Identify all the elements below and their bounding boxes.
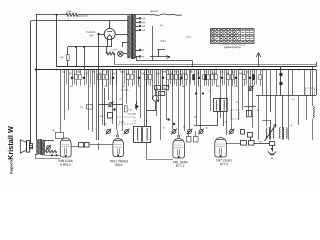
wire to selector xyxy=(78,14,150,16)
mid label j xyxy=(183,126,186,129)
junction mains xyxy=(56,14,58,16)
mid dots extra xyxy=(195,92,204,94)
label fuse xyxy=(66,10,71,13)
trimmer C20 xyxy=(108,102,114,108)
mid label n xyxy=(208,90,211,93)
trimmer C25 xyxy=(198,129,204,135)
wire coils up b xyxy=(282,95,284,127)
rectifier filament xyxy=(108,35,112,40)
electrolytic C right b xyxy=(279,76,282,95)
grid coupling box V1 xyxy=(52,129,64,139)
mid label b xyxy=(194,116,197,119)
svg-text:A D513: A D513 xyxy=(60,163,71,167)
resistor pair above V4 b xyxy=(194,131,199,142)
dashed box right edge xyxy=(306,88,315,96)
dial arrow head xyxy=(167,56,171,59)
component value labels row xyxy=(62,71,249,76)
trimmer V1 left xyxy=(46,145,51,150)
wire right coil link xyxy=(262,120,270,122)
table Anschluss grid xyxy=(211,28,255,44)
output transformer primary xyxy=(37,140,40,155)
label cap 011 xyxy=(186,36,191,39)
svg-text:2M: 2M xyxy=(104,123,107,126)
pot 50k box xyxy=(100,113,113,119)
junction bus left xyxy=(35,68,37,70)
wire mains lower xyxy=(31,20,121,22)
wire heater run xyxy=(136,61,193,67)
transformer T1 primary winding xyxy=(127,16,130,59)
junction rect left xyxy=(97,33,99,35)
svg-text:5k: 5k xyxy=(163,127,165,130)
bus B+ line xyxy=(57,66,317,68)
transformer taps upper xyxy=(136,17,146,32)
wire earth drop xyxy=(271,145,273,151)
svg-text:1M: 1M xyxy=(208,90,211,93)
wire out run xyxy=(254,140,270,143)
IF transformer box xyxy=(214,99,228,112)
wire lamp feed xyxy=(106,47,108,54)
diode tube small xyxy=(153,89,159,101)
transformer T1 secondary winding xyxy=(133,15,136,59)
svg-text:PHILIPS: PHILIPS xyxy=(86,31,95,34)
dial lamp La xyxy=(118,51,123,56)
svg-text:50: 50 xyxy=(290,124,292,127)
svg-text:2k: 2k xyxy=(236,101,238,104)
svg-text:2M: 2M xyxy=(163,87,166,90)
svg-text:Gb: Gb xyxy=(52,129,55,132)
svg-text:2M: 2M xyxy=(77,71,80,74)
svg-text:1W: 1W xyxy=(194,116,197,119)
mid label i xyxy=(163,127,165,130)
label V1 line1 xyxy=(58,159,73,163)
arrow across coils xyxy=(265,125,277,142)
resistor R dropper xyxy=(67,47,70,67)
diode detector xyxy=(136,101,139,109)
svg-text:1M: 1M xyxy=(239,72,242,75)
bus chassis line xyxy=(36,69,316,71)
second label row xyxy=(70,85,251,88)
paper background xyxy=(0,0,320,189)
tube V2 REN904 xyxy=(113,139,124,157)
wire rect cathode a xyxy=(107,39,109,47)
label V2 line2 xyxy=(115,163,123,167)
resistor V1 left xyxy=(45,150,57,153)
junction mid c xyxy=(113,108,115,110)
resistor mid 100 xyxy=(125,106,133,113)
wire mid down xyxy=(98,70,100,141)
electrolytic caps row xyxy=(71,70,252,86)
stub wires under bus xyxy=(67,70,257,85)
vertical wires field xyxy=(61,70,311,141)
resistor pair above V4 a xyxy=(187,131,192,142)
wire rect left xyxy=(99,34,105,36)
svg-text:0,5µ 500V: 0,5µ 500V xyxy=(127,113,136,116)
rectifier tube V5 xyxy=(104,29,115,40)
svg-text:0,1: 0,1 xyxy=(183,126,186,129)
wire IF down a xyxy=(217,112,219,127)
fuse Si xyxy=(66,13,78,16)
label V4 line1 xyxy=(216,158,232,162)
svg-text:0,1µF: 0,1µF xyxy=(119,121,125,124)
table bottom text row xyxy=(220,43,246,46)
junction mid a xyxy=(167,118,169,120)
mid label e xyxy=(257,109,260,112)
svg-text:977.2: 977.2 xyxy=(220,162,228,166)
label V3 line1 xyxy=(172,160,188,164)
tube V3 hexode xyxy=(173,139,185,158)
box cluster a xyxy=(155,86,161,90)
selector tail xyxy=(172,13,182,16)
svg-text:0,1: 0,1 xyxy=(159,92,162,95)
mid label a xyxy=(121,89,129,92)
wire drop down b xyxy=(84,47,86,70)
transformer taps lower xyxy=(136,49,145,59)
wire IF down b xyxy=(223,112,225,127)
dashed trimmer box xyxy=(231,110,239,119)
wire mains vertical a xyxy=(36,15,38,140)
svg-text:Kapsch: Kapsch xyxy=(10,159,14,173)
tube V1 output pentode xyxy=(60,138,71,157)
rect small right xyxy=(241,130,245,135)
tube V4 audio xyxy=(215,138,227,158)
svg-text:0,8A: 0,8A xyxy=(66,10,71,13)
junction V1 a xyxy=(51,154,53,156)
table caption xyxy=(224,46,241,49)
label mid h xyxy=(104,123,107,126)
coil pair right b xyxy=(280,127,288,140)
wire mains top xyxy=(36,14,66,16)
label mid g xyxy=(127,113,136,116)
earth symbol xyxy=(268,152,276,160)
speaker field coil xyxy=(30,144,34,149)
junction cath a xyxy=(75,46,77,48)
junction mid b xyxy=(173,123,175,125)
wire V1 loop xyxy=(35,154,60,158)
dashed cap box xyxy=(117,117,136,124)
mid label c xyxy=(236,101,238,104)
label wave xyxy=(67,18,69,21)
svg-text:La 4V: La 4V xyxy=(111,48,117,51)
svg-text:E77.2: E77.2 xyxy=(176,164,185,168)
selector curve xyxy=(150,14,172,15)
wire V3 cathode run xyxy=(147,143,173,160)
junction cath b xyxy=(83,46,85,48)
wire mid cross xyxy=(194,125,217,127)
wire T1 left tap b xyxy=(115,34,127,36)
svg-text:nach: nach xyxy=(258,140,262,143)
svg-text:Anschlussbild: Anschlussbild xyxy=(224,46,241,49)
osc coil box xyxy=(134,127,151,143)
transformer T1 core xyxy=(132,15,133,60)
speaker cone xyxy=(20,140,29,153)
grid cap V3 xyxy=(178,131,180,137)
wire T1 left tap c xyxy=(122,43,127,48)
label mid f xyxy=(119,98,122,101)
wire V2 feed xyxy=(71,146,79,148)
svg-text:1M: 1M xyxy=(163,71,166,74)
svg-text:110-220V~: 110-220V~ xyxy=(77,15,89,18)
heater rail xyxy=(115,64,316,66)
bus junction dots xyxy=(56,69,300,71)
wire mid horiz a xyxy=(99,104,109,106)
wire avc xyxy=(104,88,106,126)
coil right edge xyxy=(313,106,314,118)
wire ot top xyxy=(45,140,54,142)
wire V2 feed b xyxy=(90,143,99,150)
coil pair right a xyxy=(266,127,274,140)
resistor lamp series xyxy=(106,52,115,55)
svg-text:50: 50 xyxy=(156,87,158,90)
svg-text:Netzsch.: Netzsch. xyxy=(150,10,159,13)
label V3 line2 xyxy=(176,164,185,168)
svg-text:2k: 2k xyxy=(225,121,227,124)
label lamp xyxy=(111,48,117,51)
long vertical mid xyxy=(146,70,148,127)
trimmer C22 xyxy=(124,129,130,135)
mid label l xyxy=(225,121,227,124)
wire T1 left tap a xyxy=(121,20,127,22)
wire feeder xyxy=(56,15,58,67)
antenna symbol xyxy=(256,53,261,67)
svg-text:Kristall W: Kristall W xyxy=(6,126,15,160)
mid label d xyxy=(292,98,296,101)
trimmer near out xyxy=(248,133,253,141)
rect mid right xyxy=(247,111,252,117)
label cap 01 xyxy=(160,24,164,27)
long vertical right edge xyxy=(312,67,314,140)
dial line xyxy=(150,56,170,58)
box cluster c xyxy=(159,92,165,96)
junction V1 b xyxy=(55,154,57,156)
grid cap V2 xyxy=(116,130,118,137)
wire drop down a xyxy=(76,47,78,67)
label heater xyxy=(159,40,166,43)
trimmer C23 xyxy=(171,129,177,135)
wire heater tap xyxy=(136,57,138,61)
bottom rail right xyxy=(256,95,316,97)
dial bracket xyxy=(158,50,166,58)
label selector xyxy=(150,10,159,13)
box V2 feed a xyxy=(79,143,84,148)
label R dropper xyxy=(59,56,64,59)
svg-text:30: 30 xyxy=(205,127,207,130)
mid label m xyxy=(290,124,292,127)
output transformer secondary xyxy=(42,140,45,155)
wire ot bottom xyxy=(35,154,36,156)
wire coils up a xyxy=(270,95,272,127)
wire V4 anode run xyxy=(226,143,240,145)
output transformer core xyxy=(41,139,42,155)
rectifier anode xyxy=(107,24,112,32)
wire rect left down xyxy=(98,34,100,70)
label V1 line2 xyxy=(60,163,71,167)
solid resistors row xyxy=(193,70,255,86)
trimmer C24 xyxy=(187,129,193,135)
label rectifier type xyxy=(86,31,95,37)
trimmer C27 xyxy=(248,86,254,92)
box out b xyxy=(249,141,255,146)
cap box left mid xyxy=(80,105,93,110)
svg-text:9912: 9912 xyxy=(115,163,123,167)
heater rail drop xyxy=(114,54,116,65)
resistors row xyxy=(75,70,262,87)
box out a xyxy=(241,141,247,146)
trimmer C21 xyxy=(106,129,112,135)
svg-text:1M: 1M xyxy=(104,85,107,88)
label V4 line2 xyxy=(220,162,228,166)
bus right terminal xyxy=(316,62,318,95)
svg-text:≈6,3V: ≈6,3V xyxy=(159,40,166,43)
label V2 line1 xyxy=(110,159,129,163)
box out c xyxy=(270,142,275,146)
wire mid horiz b xyxy=(113,104,123,106)
mid label k xyxy=(205,127,207,130)
wire rect top xyxy=(109,21,111,24)
wire V2 left xyxy=(99,144,113,146)
maker Kapsch xyxy=(10,159,14,173)
wire mains vertical b xyxy=(30,21,32,144)
trimmer C26 xyxy=(229,129,235,135)
svg-text:50k: 50k xyxy=(100,115,103,118)
box V2 feed b xyxy=(85,143,90,148)
right column verticals xyxy=(259,95,307,140)
wire rect cathode b xyxy=(111,39,113,47)
box cluster b xyxy=(163,86,169,90)
title Kristall W xyxy=(6,126,15,160)
wire diode down xyxy=(147,101,156,111)
wire V1 bottom xyxy=(44,155,60,157)
wire mid right xyxy=(244,106,256,108)
wire lamp right xyxy=(123,53,127,55)
table cell entries xyxy=(211,28,253,42)
wire cathode rail xyxy=(68,46,112,48)
label mains voltage xyxy=(77,15,89,18)
wire selector drop xyxy=(152,26,154,61)
svg-text:M. Al. 5y: M. Al. 5y xyxy=(121,89,129,92)
electrolytic C right a xyxy=(279,67,282,76)
